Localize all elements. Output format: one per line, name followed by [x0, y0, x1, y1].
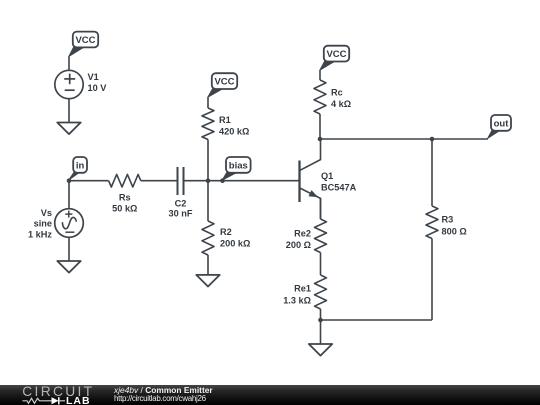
- logo resistor symbol: [23, 398, 46, 403]
- source Vs sine: [55, 209, 84, 238]
- in flag: [69, 157, 87, 180]
- VCC flag (R1): [208, 73, 237, 97]
- footer url line: [114, 395, 206, 403]
- wire Vs to ground: [68, 237, 70, 261]
- label Vs sine 1 kHz: [28, 208, 52, 240]
- wire Rs to C2: [141, 180, 178, 182]
- svg-text:VCC: VCC: [75, 35, 95, 46]
- svg-text:bias: bias: [229, 160, 248, 171]
- svg-text:in: in: [76, 160, 85, 171]
- Q1 emitter: [300, 188, 321, 219]
- svg-text:420 kΩ: 420 kΩ: [219, 127, 249, 137]
- bias flag: [222, 157, 250, 180]
- label Re1 1.3 kOhm: [283, 284, 311, 306]
- label Re2 200 Ohm: [286, 229, 311, 251]
- wire node to R3: [431, 139, 433, 206]
- resistor Re1: [315, 275, 327, 309]
- label R3 800 Ohm: [442, 215, 467, 237]
- Q1 collector: [300, 139, 321, 171]
- junction R1/R2: [206, 178, 211, 183]
- wire Rc to collector node: [319, 114, 321, 139]
- svg-text:Rs: Rs: [119, 193, 131, 203]
- wire collector to out: [320, 138, 488, 140]
- wire Re1 to bottom node: [320, 309, 322, 320]
- wire C2 to base: [184, 180, 300, 182]
- CircuitLab logo: [14, 385, 114, 405]
- svg-text:VCC: VCC: [214, 77, 234, 88]
- footer bar: [0, 385, 540, 405]
- label Rc 4 kOhm: [331, 88, 351, 109]
- out flag: [488, 115, 511, 138]
- resistor Rc: [314, 80, 326, 114]
- svg-text:50 kΩ: 50 kΩ: [112, 204, 137, 214]
- VCC flag (Rc): [320, 46, 349, 70]
- wire R1 to junction: [207, 140, 209, 181]
- svg-text:VCC: VCC: [326, 49, 346, 60]
- VCC flag (V1): [69, 32, 98, 57]
- svg-text:Q1: Q1: [321, 171, 333, 181]
- wire R2 to ground: [207, 255, 209, 275]
- ground (bottom): [309, 344, 332, 356]
- ground (Vs): [57, 261, 80, 273]
- wire VCC to Rc: [319, 70, 321, 80]
- node R3 top: [430, 137, 435, 142]
- svg-text:BC547A: BC547A: [321, 183, 357, 193]
- ground (V1): [57, 123, 80, 135]
- label Q1 BC547A: [321, 171, 357, 193]
- svg-text:V1: V1: [88, 72, 99, 82]
- svg-text:R2: R2: [220, 227, 232, 237]
- wire junction to R2: [207, 181, 209, 221]
- wire R3 to emitter node: [321, 319, 433, 321]
- resistor Re2: [315, 219, 327, 253]
- svg-text:R1: R1: [219, 115, 231, 125]
- node collector: [318, 137, 323, 142]
- svg-text:30 nF: 30 nF: [169, 208, 193, 218]
- svg-text:LAB: LAB: [66, 395, 91, 405]
- footer title line: [114, 387, 213, 394]
- resistor R2: [202, 221, 214, 255]
- voltage source V1: [55, 70, 83, 98]
- svg-text:Vs: Vs: [41, 208, 52, 218]
- svg-text:200 kΩ: 200 kΩ: [220, 239, 250, 249]
- wire R3 down: [431, 239, 433, 321]
- Q1 emitter arrow: [309, 190, 319, 197]
- svg-text:1 kHz: 1 kHz: [28, 230, 52, 240]
- wire in-node to Rs: [69, 180, 109, 182]
- capacitor C2: [178, 167, 184, 195]
- wire V1 to ground: [68, 99, 70, 123]
- node emitter bottom: [318, 318, 323, 323]
- svg-text:10 V: 10 V: [88, 83, 108, 93]
- transistor Q1 base bar: [298, 161, 300, 203]
- label R2 200 kOhm: [220, 227, 250, 249]
- svg-text:R3: R3: [442, 215, 454, 225]
- resistor R1: [202, 108, 214, 140]
- svg-text:200 Ω: 200 Ω: [286, 240, 311, 250]
- wire node to ground: [320, 320, 322, 344]
- svg-text:800 Ω: 800 Ω: [442, 227, 467, 237]
- wire VCC to V1: [68, 57, 70, 71]
- resistor Rs: [109, 174, 141, 187]
- wire VCC to R1: [207, 97, 209, 108]
- svg-text:4 kΩ: 4 kΩ: [331, 99, 351, 109]
- node in: [67, 178, 72, 183]
- svg-text:Re1: Re1: [294, 284, 311, 294]
- wire emitter to Re2: [320, 198, 322, 219]
- resistor R3: [426, 206, 438, 239]
- logo diode symbol: [52, 397, 59, 404]
- svg-text:Rc: Rc: [331, 88, 343, 98]
- node bias: [220, 178, 225, 183]
- svg-text:1.3 kΩ: 1.3 kΩ: [283, 296, 311, 306]
- label R1 420 kOhm: [219, 115, 249, 137]
- label C2 30 nF: [169, 198, 193, 218]
- svg-text:C2: C2: [175, 198, 187, 208]
- ground (R2): [196, 275, 219, 287]
- label Rs 50 kOhm: [112, 193, 137, 214]
- wire Re2 to Re1: [320, 253, 322, 276]
- svg-text:sine: sine: [34, 219, 52, 229]
- svg-text:Re2: Re2: [294, 229, 311, 239]
- svg-text:out: out: [494, 118, 510, 129]
- wire in to Vs: [68, 181, 70, 209]
- label V1 10 V: [88, 72, 108, 93]
